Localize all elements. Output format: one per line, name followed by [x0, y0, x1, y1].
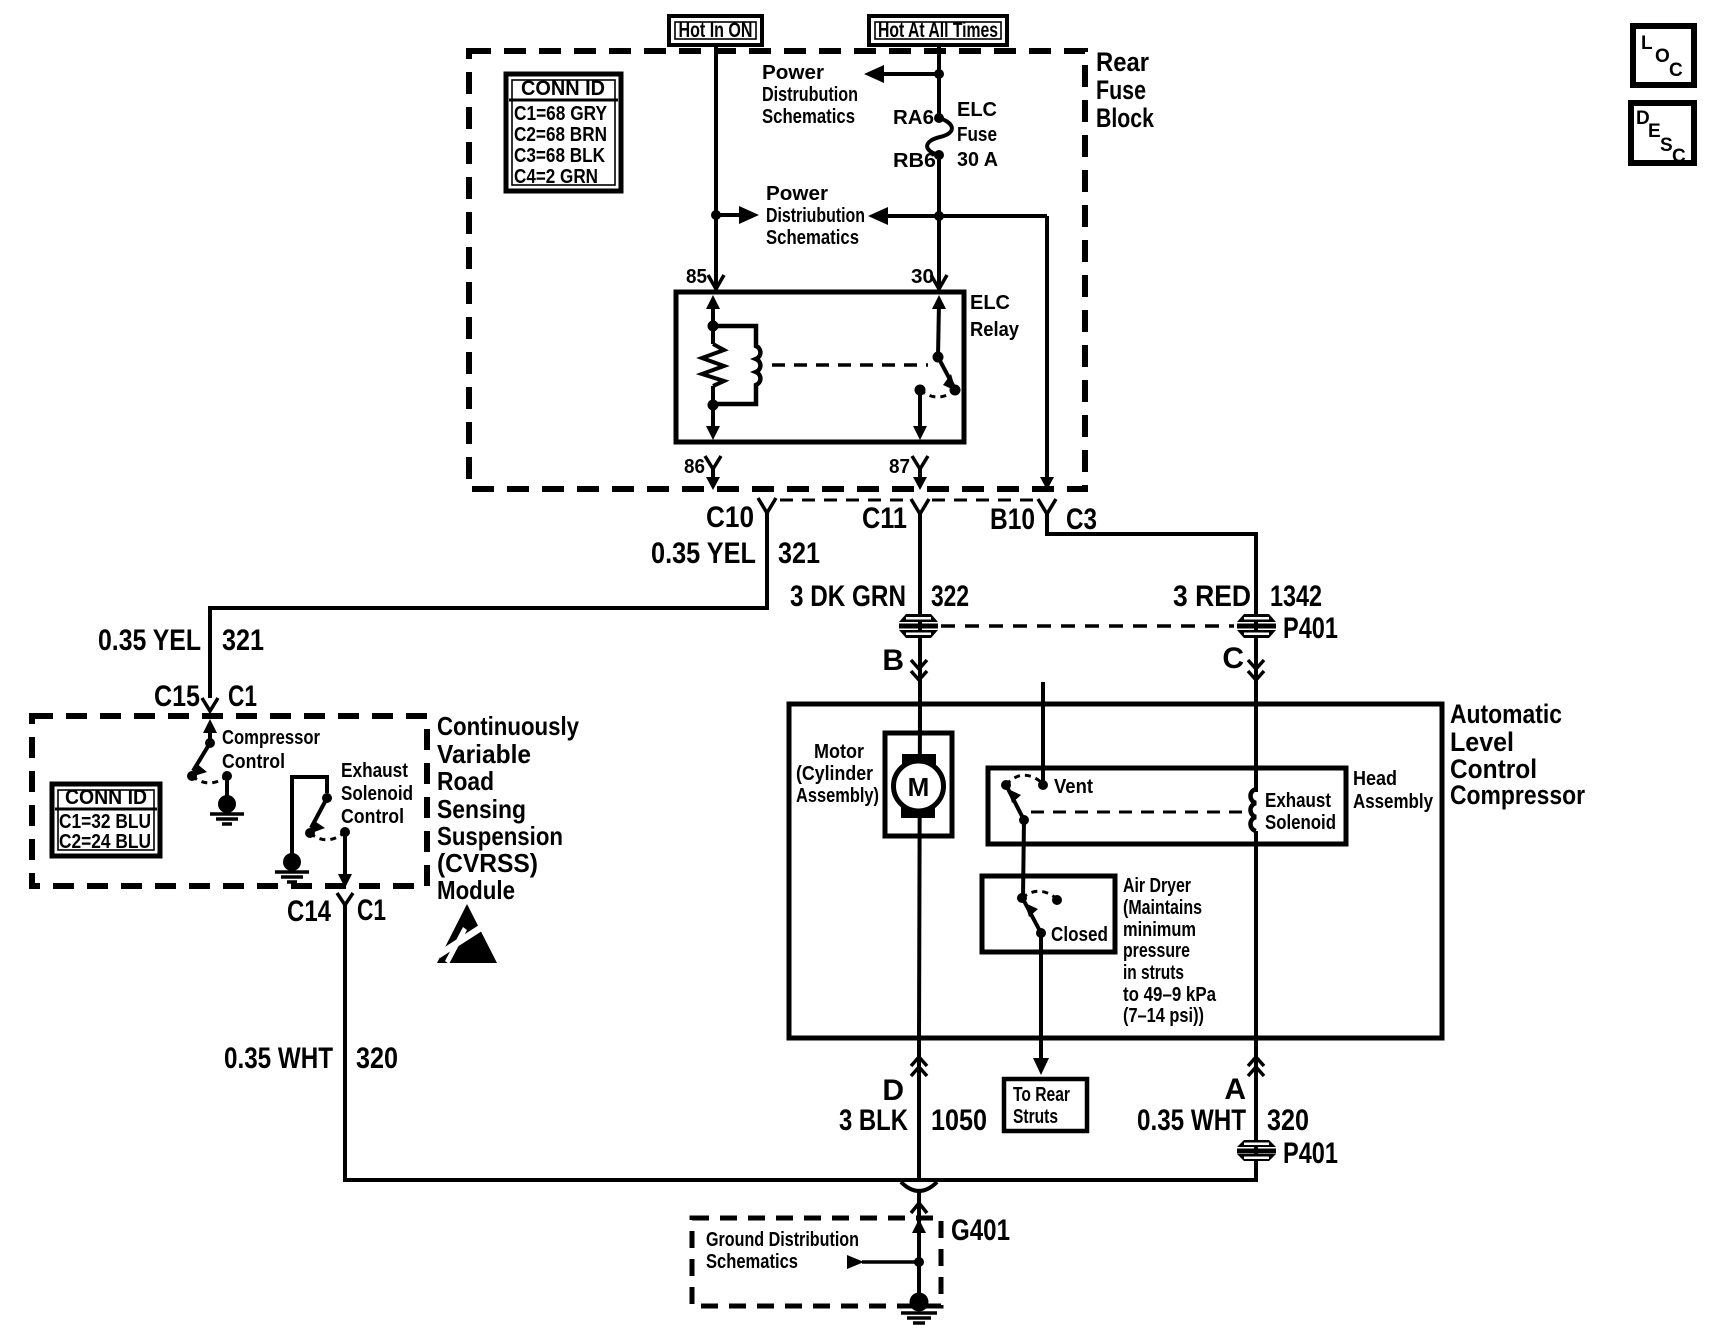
- relay coil (parallel branch): [713, 326, 760, 404]
- svg-text:Power: Power: [766, 183, 828, 205]
- svg-text:Level: Level: [1450, 727, 1514, 757]
- svg-text:C2=24 BLU: C2=24 BLU: [59, 831, 151, 853]
- svg-text:B: B: [882, 644, 904, 677]
- motor (cylinder assembly) symbol: [885, 733, 952, 836]
- Rear Fuse Block dashed boundary: [469, 51, 1085, 489]
- wire: exhaust solenoid control output to C14: [338, 836, 352, 888]
- connector C11 chevron and label: [862, 499, 929, 535]
- label: Motor (Cylinder Assembly): [796, 741, 879, 807]
- svg-text:Module: Module: [437, 875, 515, 905]
- svg-text:(7–14 psi)): (7–14 psi)): [1123, 1005, 1204, 1027]
- dashed connector tie line between P401 halves: [941, 624, 1234, 628]
- ground: exhaust solenoid control internal ground: [275, 853, 309, 882]
- svg-text:Fuse: Fuse: [1096, 75, 1146, 105]
- svg-text:Sensing: Sensing: [437, 794, 526, 824]
- svg-text:Road: Road: [437, 766, 494, 796]
- svg-text:Distriubution: Distriubution: [766, 205, 865, 227]
- svg-text:to 49–9 kPa: to 49–9 kPa: [1123, 984, 1217, 1006]
- svg-text:Control: Control: [222, 751, 285, 773]
- svg-text:C: C: [1672, 146, 1686, 167]
- svg-text:Exhaust: Exhaust: [341, 760, 408, 782]
- air dryer switch (Closed): [1017, 891, 1108, 946]
- wire: stub with right arrow toward text: [716, 206, 759, 224]
- svg-text:C4=2 GRN: C4=2 GRN: [514, 166, 598, 188]
- svg-text:P401: P401: [1283, 612, 1338, 645]
- svg-text:Fuse: Fuse: [957, 124, 997, 146]
- svg-text:87: 87: [889, 456, 910, 478]
- wire: circuit 320 from A to ground bus: [1254, 1038, 1258, 1182]
- svg-text:0.35 WHT: 0.35 WHT: [1137, 1104, 1246, 1137]
- svg-text:A: A: [1224, 1073, 1246, 1106]
- svg-text:(Maintains: (Maintains: [1123, 897, 1202, 919]
- To Rear Struts box: [1004, 1079, 1087, 1131]
- relay switch blade with arrow: [938, 357, 956, 391]
- svg-text:C2=68 BRN: C2=68 BRN: [514, 124, 607, 146]
- svg-text:Hot In ON: Hot In ON: [679, 19, 753, 42]
- node: relay coil bottom junction: [708, 400, 719, 411]
- svg-text:Closed: Closed: [1051, 924, 1108, 946]
- svg-text:Distrubution: Distrubution: [762, 84, 858, 106]
- svg-text:RA6: RA6: [893, 107, 934, 129]
- pin 85 label and female chevron: [686, 266, 724, 289]
- label: 0.35 YEL 321 (upper): [651, 537, 820, 570]
- svg-text:Relay: Relay: [970, 319, 1020, 341]
- svg-text:E: E: [1648, 121, 1661, 142]
- svg-text:Air Dryer: Air Dryer: [1123, 875, 1191, 897]
- svg-text:Rear: Rear: [1096, 47, 1149, 77]
- svg-text:CONN ID: CONN ID: [521, 77, 605, 100]
- inline connector P401 on circuit 320 with label: [1237, 1137, 1338, 1170]
- pin B label and pass-through chevrons: [882, 644, 927, 680]
- svg-text:(Cylinder: (Cylinder: [796, 763, 873, 785]
- exhaust solenoid coil on circuit to pin A: [1250, 789, 1336, 834]
- svg-text:G401: G401: [951, 1214, 1010, 1247]
- svg-text:1050: 1050: [931, 1104, 987, 1137]
- svg-text:C: C: [1669, 60, 1683, 81]
- Rear Fuse Block label: [1096, 47, 1155, 133]
- svg-text:0.35 WHT: 0.35 WHT: [224, 1042, 333, 1075]
- inline connector P401 on circuit 1342 with label: [1237, 612, 1338, 645]
- svg-text:To Rear: To Rear: [1013, 1084, 1070, 1106]
- node: junction on pin 85 wire (second power distribution tap): [711, 210, 721, 220]
- wire: B10/C3 circuit 1342 jog right and down to compressor C: [1045, 514, 1256, 792]
- svg-text:3 DK GRN: 3 DK GRN: [790, 580, 906, 613]
- relay switch fixed contact: [950, 385, 961, 396]
- svg-text:Solenoid: Solenoid: [341, 783, 413, 805]
- svg-text:P401: P401: [1283, 1137, 1338, 1170]
- wire: circuit 1050 from D to ground bus: [917, 1038, 921, 1182]
- svg-text:Control: Control: [341, 806, 404, 828]
- vent switch: [1001, 775, 1093, 825]
- label: 0.35 WHT 320 (right): [1137, 1104, 1309, 1137]
- svg-text:86: 86: [684, 456, 705, 478]
- svg-text:C10: C10: [706, 501, 754, 534]
- svg-text:C1=32 BLU: C1=32 BLU: [59, 811, 151, 833]
- dashed throw arc of relay switch: [920, 390, 955, 397]
- CVRSS module label: [437, 711, 579, 905]
- svg-text:Ground Distribution: Ground Distribution: [706, 1229, 859, 1251]
- svg-text:0.35 YEL: 0.35 YEL: [651, 537, 756, 570]
- node: relay coil top junction: [708, 321, 719, 332]
- svg-text:322: 322: [931, 580, 969, 613]
- connector C14 / C1 chevron and labels: [287, 893, 386, 928]
- wire: circuit 320 down from C14 to ground bus: [343, 905, 347, 1182]
- svg-text:C1: C1: [357, 894, 386, 927]
- svg-text:C3: C3: [1066, 503, 1097, 536]
- svg-text:Struts: Struts: [1013, 1106, 1058, 1128]
- wire: Hot In ON feed down to relay pin 85: [714, 45, 718, 288]
- label: 3 RED 1342: [1173, 580, 1322, 613]
- head assembly box: [988, 768, 1434, 844]
- svg-text:C11: C11: [862, 502, 907, 535]
- svg-text:O: O: [1655, 46, 1670, 67]
- svg-text:Power: Power: [762, 62, 824, 84]
- CONN ID table (CVRSS): [52, 784, 160, 856]
- svg-text:C15: C15: [154, 680, 200, 713]
- svg-text:L: L: [1641, 33, 1653, 54]
- svg-text:Automatic: Automatic: [1450, 699, 1562, 729]
- label: Power Distriubution Schematics (second): [766, 183, 865, 249]
- ESD sensitive device symbol: [437, 904, 497, 964]
- svg-text:321: 321: [222, 624, 264, 657]
- wire: fuse output down to relay pin 30: [937, 155, 941, 288]
- svg-text:C1: C1: [228, 680, 257, 713]
- svg-text:320: 320: [356, 1042, 398, 1075]
- ground bus wire: [345, 1178, 1256, 1182]
- dashed actuation link from coil to switch: [772, 363, 928, 367]
- svg-text:Assembly: Assembly: [1353, 791, 1434, 813]
- relay switch common contact: [915, 385, 926, 396]
- pin C label and pass-through chevrons: [1222, 642, 1264, 680]
- svg-text:Exhaust: Exhaust: [1265, 790, 1331, 812]
- wire: power distribution tap line (top) with left arrow: [864, 65, 939, 83]
- connector face dashed line (C10/C11/B10 row): [780, 499, 1034, 502]
- svg-text:0.35 YEL: 0.35 YEL: [98, 624, 201, 657]
- svg-text:3 BLK: 3 BLK: [839, 1104, 908, 1137]
- svg-text:(CVRSS): (CVRSS): [437, 848, 538, 878]
- wire: bus down to G401 with fork chevron: [911, 1192, 927, 1298]
- svg-text:B10: B10: [990, 503, 1035, 536]
- ground distribution tap arrow and line: [847, 1255, 924, 1269]
- svg-text:Vent: Vent: [1054, 776, 1093, 798]
- svg-text:C: C: [1222, 642, 1244, 675]
- Hot At All Times banner box: [869, 16, 1007, 45]
- svg-text:C1=68 GRY: C1=68 GRY: [514, 103, 608, 125]
- svg-text:C3=68 BLK: C3=68 BLK: [514, 145, 605, 167]
- pin 30 label and female chevron: [911, 266, 947, 289]
- svg-text:320: 320: [1267, 1104, 1309, 1137]
- svg-text:1342: 1342: [1270, 580, 1322, 613]
- inline connector P401 on circuit 322: [899, 614, 938, 638]
- svg-text:Compressor: Compressor: [222, 727, 320, 749]
- svg-text:Block: Block: [1096, 103, 1155, 133]
- wire: C11 circuit 322 down to compressor B: [918, 514, 922, 733]
- label: Air Dryer (Maintains minimum pressure in struts to 49-9 kPa (7-14 psi)): [1123, 875, 1217, 1027]
- svg-text:Schematics: Schematics: [766, 227, 859, 249]
- wire: air dryer output to rear struts: [1033, 933, 1049, 1075]
- svg-text:85: 85: [686, 266, 707, 288]
- connector C10 chevron and label: [706, 498, 776, 534]
- wire: Hot At All Times feed down to fuse: [937, 45, 941, 116]
- DESC reference box: [1631, 103, 1694, 167]
- label: Automatic Level Control Compressor: [1450, 699, 1585, 810]
- node: bus junction under circuit 1050: [901, 1182, 937, 1191]
- wire: second tap line with left arrow, continuing right to B10 drop: [868, 207, 1047, 225]
- svg-text:321: 321: [778, 537, 820, 570]
- label: Ground Distribution Schematics: [706, 1229, 859, 1273]
- G401 dashed box: [692, 1214, 1010, 1306]
- label: Compressor Control: [222, 727, 320, 773]
- relay pin86 exit arrow (down): [706, 405, 720, 440]
- svg-text:Continuously: Continuously: [437, 711, 579, 741]
- wire: B10 feed drop inside fuse block: [1040, 216, 1054, 490]
- svg-text:Compressor: Compressor: [1450, 780, 1585, 810]
- svg-text:D: D: [882, 1074, 904, 1107]
- wire: vent switch output down to air dryer: [1023, 820, 1024, 898]
- svg-text:pressure: pressure: [1123, 940, 1190, 962]
- svg-text:S: S: [1660, 135, 1673, 156]
- LOC reference box: [1633, 26, 1694, 85]
- wire: vent feed stub: [1041, 682, 1045, 785]
- svg-text:Head: Head: [1353, 768, 1397, 790]
- wire: motor branch through compressor (circuit 322 to D): [919, 704, 920, 1038]
- CVRSS module dashed boundary: [32, 716, 427, 886]
- resistor (relay suppression): [702, 326, 724, 405]
- dashed mechanical link vent to exhaust solenoid: [1031, 811, 1246, 814]
- svg-text:Assembly): Assembly): [796, 785, 879, 807]
- svg-text:Schematics: Schematics: [762, 106, 855, 128]
- label: Exhaust Solenoid Control: [341, 760, 413, 828]
- svg-text:minimum: minimum: [1123, 919, 1196, 941]
- relay switch pivot: [933, 352, 944, 363]
- svg-text:Suspension: Suspension: [437, 821, 563, 851]
- CONN ID table (fuse block): [506, 74, 621, 191]
- svg-text:Variable: Variable: [437, 739, 531, 769]
- svg-text:Schematics: Schematics: [706, 1251, 798, 1273]
- Hot In ON banner box: [669, 16, 762, 45]
- svg-text:Motor: Motor: [814, 741, 864, 763]
- exhaust solenoid control switch: [290, 775, 350, 855]
- pin 86 label, chevron and exit arrow to connector row: [684, 456, 721, 490]
- pin A label and chevrons: [1224, 1057, 1264, 1106]
- ELC relay box: [676, 292, 1020, 442]
- label: Power Distribution Schematics (top): [762, 62, 858, 128]
- wire: C10 circuit 321 down, left and to CVRSS C15: [208, 513, 769, 698]
- Automatic Level Control Compressor box: [789, 704, 1442, 1038]
- node: junction on fuse output wire: [934, 211, 944, 221]
- svg-text:30 A: 30 A: [957, 149, 998, 171]
- node: junction on fuse feed (power distribution tap): [934, 69, 944, 79]
- svg-text:RB6: RB6: [893, 150, 936, 172]
- label: 0.35 WHT 320 (left): [224, 1042, 398, 1075]
- label: 3 BLK 1050: [839, 1104, 987, 1137]
- svg-text:ELC: ELC: [957, 99, 997, 121]
- connector C15 / C1 chevron and labels: [154, 680, 257, 713]
- fuse RA6/RB6 ELC Fuse 30 A: [893, 99, 998, 172]
- svg-text:ELC: ELC: [970, 292, 1010, 314]
- relay common exit arrow (down) to pin 87: [913, 390, 927, 440]
- relay pin85 entry arrow (up): [706, 295, 720, 326]
- svg-text:M: M: [908, 772, 930, 802]
- svg-text:3 RED: 3 RED: [1173, 580, 1251, 613]
- svg-text:CONN ID: CONN ID: [65, 786, 147, 809]
- svg-text:Hot At All Times: Hot At All Times: [878, 19, 998, 42]
- air dryer box: [982, 876, 1115, 952]
- ground: compressor control internal ground: [210, 776, 244, 824]
- pin 87 label, chevron and exit arrow to connector row: [889, 456, 928, 490]
- connector B10 / C3 chevron and labels: [990, 499, 1097, 536]
- pin D label and chevrons: [882, 1057, 927, 1107]
- relay pin30 entry arrow (up) and wire to switch pivot: [932, 295, 946, 357]
- svg-text:C14: C14: [287, 895, 331, 928]
- svg-text:Solenoid: Solenoid: [1265, 812, 1336, 834]
- compressor control switch (up arrow, pivot, blade, contacts): [187, 719, 232, 783]
- ground G401 symbol: [901, 1293, 937, 1324]
- svg-text:in struts: in struts: [1123, 962, 1184, 984]
- wire: circuit to pin A through head assembly down: [1254, 831, 1258, 1038]
- label: 3 DK GRN 322: [790, 580, 969, 613]
- label: 0.35 YEL 321 (left): [98, 624, 264, 657]
